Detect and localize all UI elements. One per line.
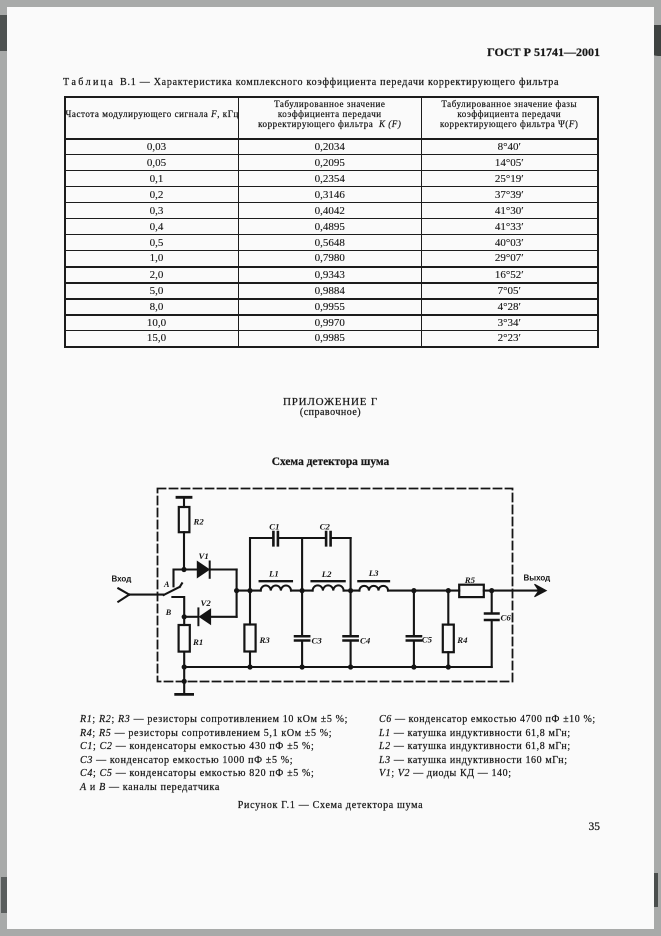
wire input (129, 594, 164, 596)
svg-text:C6: C6 (501, 613, 512, 623)
junction R1 on bottom rail (182, 664, 187, 669)
junction C5 on bottom rail (411, 664, 416, 669)
inductor L2 (313, 585, 344, 590)
component descriptions left column (80, 713, 348, 795)
junction C6 riser on mainline (489, 588, 494, 593)
diode V2 (184, 616, 197, 618)
svg-text:C5: C5 (422, 635, 433, 645)
svg-text:В: В (165, 608, 172, 617)
junction C4 on bottom rail (348, 664, 353, 669)
ground (176, 693, 193, 696)
junction R3/C1 riser on mainline (247, 588, 252, 593)
svg-text:R5: R5 (464, 575, 476, 585)
junction at enclosure crossing (182, 679, 187, 684)
node B junction dot (182, 614, 187, 619)
switch arm from input (164, 583, 182, 595)
table title (63, 77, 623, 88)
capacitor C1 (273, 532, 278, 545)
svg-text:C1: C1 (269, 522, 279, 532)
junction C5 riser on mainline (411, 588, 416, 593)
svg-text:А: А (163, 580, 170, 589)
svg-text:R1: R1 (192, 637, 203, 647)
junction C4 riser on mainline (348, 588, 353, 593)
scan frame corner marks (0, 15, 8, 51)
svg-text:Выход: Выход (524, 574, 551, 583)
capacitor C3 (301, 591, 303, 635)
svg-text:R3: R3 (259, 635, 271, 645)
output arrow (535, 584, 547, 597)
page number (7, 821, 600, 833)
svg-text:C3: C3 (312, 636, 323, 646)
input fork terminal (118, 588, 129, 601)
wire bottom rail (184, 666, 492, 668)
wire top rail risers (250, 538, 351, 591)
resistor R3 (249, 591, 251, 625)
junction R4 on bottom rail (446, 664, 451, 669)
resistor R2 (179, 507, 190, 532)
svg-text:L3: L3 (368, 568, 379, 578)
wire V2 riser to main node (236, 591, 238, 617)
capacitor C5 (413, 591, 415, 635)
svg-text:V2: V2 (201, 598, 212, 608)
node A junction dot (181, 567, 186, 572)
main node junction dot (234, 588, 239, 593)
resistor R4 (447, 591, 449, 625)
junction R4 riser on mainline (446, 588, 451, 593)
table B.1 (64, 96, 599, 348)
wire node B contact (172, 597, 184, 617)
resistor R5 (459, 585, 484, 597)
inductor L3 (359, 586, 388, 591)
svg-text:L1: L1 (268, 569, 279, 579)
svg-text:C4: C4 (360, 636, 371, 646)
wire ground stem (183, 667, 185, 693)
svg-text:L2: L2 (321, 569, 332, 579)
wire V1 riser to main node (236, 570, 238, 591)
svg-text:R2: R2 (193, 517, 205, 527)
svg-text:V1: V1 (199, 551, 209, 561)
component descriptions right column (379, 713, 596, 781)
wire terminal to R2 (183, 498, 185, 508)
terminal bar above R2 (177, 496, 191, 499)
wire node A horizontal and contact drop (174, 570, 198, 587)
svg-text:C2: C2 (320, 522, 331, 532)
wire R2 to node A top (183, 532, 185, 569)
svg-text:Вход: Вход (112, 575, 132, 584)
capacitor C6 (491, 591, 493, 613)
inductor L1 (261, 586, 291, 591)
page header ГОСТ Р 51741—2001 (7, 45, 600, 60)
enclosure dashed box (158, 489, 513, 682)
resistor R1 (183, 617, 185, 625)
junction C3 riser on mainline (300, 588, 305, 593)
junction C3 on bottom rail (300, 664, 305, 669)
appendix heading (7, 396, 654, 408)
junction R3 on bottom rail (247, 664, 252, 669)
capacitor C4 (350, 591, 352, 635)
capacitor C2 (326, 532, 331, 545)
wire mainline segments (237, 590, 540, 592)
svg-text:R4: R4 (456, 635, 468, 645)
figure caption (7, 800, 654, 811)
diode V1 (197, 562, 209, 578)
